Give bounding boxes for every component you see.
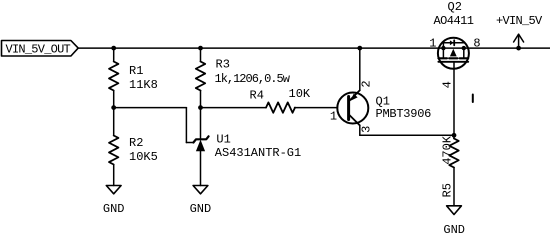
svg-text:U1: U1	[216, 132, 230, 146]
svg-text:3: 3	[359, 126, 373, 133]
wire Q1 collector to gate node	[360, 134, 454, 136]
wire R5 top segment	[453, 135, 455, 138]
mosfet Q2 body circle	[438, 38, 469, 69]
Q2 left stub down	[442, 48, 444, 57]
svg-text:11K8: 11K8	[129, 78, 158, 92]
svg-text:GND: GND	[103, 202, 125, 216]
Q1 base bar	[347, 97, 350, 120]
svg-text:10K: 10K	[289, 87, 311, 101]
node junction dot at Q1 emitter	[357, 46, 362, 51]
svg-text:8: 8	[473, 37, 480, 51]
transistor Q1 body circle	[337, 93, 368, 124]
svg-text:1: 1	[429, 37, 436, 51]
node junction dot R3 bottom / U1 cathode / R4	[198, 105, 203, 110]
node junction dot gate/R5	[452, 133, 457, 138]
svg-text:470K: 470K	[440, 135, 454, 165]
svg-text:GND: GND	[190, 202, 212, 216]
wire Q2 gate down to node	[453, 62, 455, 136]
Q2 right stub down	[463, 48, 465, 57]
wire R3 bottom segment	[200, 91, 202, 108]
svg-text:R1: R1	[129, 64, 143, 78]
svg-text:PMBT3906: PMBT3906	[376, 107, 432, 121]
wire R1 bottom segment	[113, 91, 115, 108]
svg-text:AS431ANTR-G1: AS431ANTR-G1	[215, 146, 301, 160]
power symbol +VIN_5V arrow stem	[518, 34, 520, 48]
shunt regulator U1 cathode wire	[200, 108, 202, 140]
U1 cathode bar with zener hooks	[193, 136, 208, 142]
svg-text:AO4411: AO4411	[434, 14, 474, 28]
wire R2 top segment	[113, 108, 115, 136]
net label VIN_5V_OUT (global label outline)	[2, 41, 79, 57]
Q1 emitter diagonal	[349, 90, 360, 101]
resistor R5	[449, 139, 458, 168]
svg-text:Q2: Q2	[448, 0, 462, 14]
svg-text:+VIN_5V: +VIN_5V	[496, 14, 543, 28]
wire U1 anode segment	[200, 151, 202, 185]
Q2 body-diode cathode bar	[453, 40, 455, 45]
resistor R1	[109, 62, 118, 91]
resistor R4	[266, 102, 295, 112]
svg-text:R3: R3	[216, 58, 230, 72]
svg-text:GND: GND	[443, 223, 465, 236]
svg-text:1k,1206,0.5w: 1k,1206,0.5w	[215, 72, 291, 86]
wire R1 top segment	[113, 48, 115, 61]
wire R4 left segment	[201, 107, 267, 109]
Q1 collector diagonal	[349, 114, 360, 125]
Q2 channel contact bar middle	[449, 57, 457, 59]
wire R5 bottom segment	[453, 168, 455, 206]
Q2 body-diode triangle	[450, 40, 454, 45]
svg-text:10K5: 10K5	[129, 150, 158, 164]
wire R4 right segment to Q1 base	[295, 107, 338, 109]
node junction dot at R1 top	[111, 46, 116, 51]
svg-text:R2: R2	[129, 136, 143, 150]
power symbol +VIN_5V arrow head	[514, 34, 524, 42]
Q2 channel contact bar right	[460, 57, 469, 59]
wire Q1 emitter to main net	[359, 48, 361, 90]
Q2 internal right contact dot	[462, 46, 466, 50]
Q2 body-diode rail	[443, 42, 463, 44]
Q2 substrate arrow	[450, 49, 457, 57]
wire U1 ref to symbol	[186, 142, 193, 144]
unconnected stub mark near Q2	[472, 95, 474, 103]
wire R3 top segment	[200, 48, 202, 61]
svg-text:R4: R4	[250, 89, 264, 103]
Q2 internal left contact dot	[441, 46, 445, 50]
node junction dot at +VIN_5V	[516, 46, 521, 51]
Q2 channel contact bar left	[438, 57, 447, 59]
wire Q1 collector down	[359, 125, 361, 135]
node junction dot R1/R2 divider	[111, 105, 116, 110]
ground symbol under U1	[193, 186, 208, 194]
wire U1 ref vertical	[185, 108, 187, 143]
ground symbol under R2	[106, 186, 121, 194]
Q2 gate line	[438, 61, 468, 63]
wire divider to U1 ref horizontal	[114, 107, 187, 109]
svg-text:VIN_5V_OUT: VIN_5V_OUT	[6, 43, 71, 57]
svg-text:4: 4	[440, 81, 454, 88]
resistor R2	[109, 136, 118, 165]
ground symbol under R5	[447, 206, 462, 215]
U1 anode triangle	[196, 140, 205, 152]
svg-text:1: 1	[330, 109, 337, 123]
wire R2 bottom segment	[113, 165, 115, 186]
Q2 body-diode rail left stub	[442, 43, 444, 48]
node junction dot at R3 top	[198, 46, 203, 51]
Q1 emitter arrow (PNP)	[350, 94, 357, 101]
wire main horizontal net y=48	[78, 47, 550, 49]
svg-text:R5: R5	[440, 183, 454, 197]
svg-text:2: 2	[359, 80, 373, 87]
resistor R3	[196, 62, 205, 91]
